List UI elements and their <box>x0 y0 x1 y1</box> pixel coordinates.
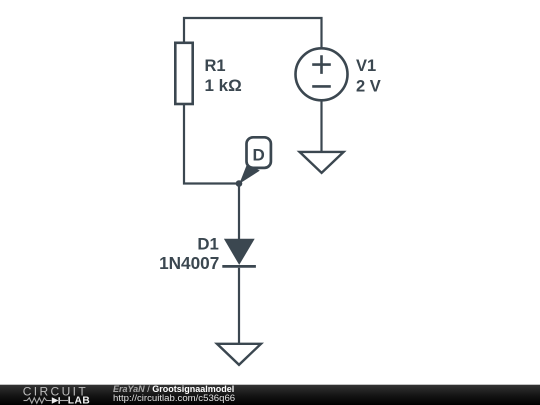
svg-text:D1: D1 <box>197 235 218 254</box>
svg-text:1 kΩ: 1 kΩ <box>205 76 242 95</box>
svg-text:R1: R1 <box>205 57 226 75</box>
svg-text:V1: V1 <box>356 57 376 75</box>
wire top rail from R1 top to V1 top <box>184 18 322 48</box>
wire from V1 bottom to ground <box>320 101 322 152</box>
svg-text:D: D <box>253 145 265 164</box>
svg-text:LAB: LAB <box>68 396 90 405</box>
wire from diode D1 to ground <box>238 268 240 343</box>
svg-text:1N4007: 1N4007 <box>159 253 219 273</box>
junction dot at node D <box>236 180 243 187</box>
CircuitLab logo mini schematic: wire <box>24 400 28 402</box>
svg-text:http://circuitlab.com/c536q66: http://circuitlab.com/c536q66 <box>113 393 235 404</box>
resistor R1 body <box>175 43 192 104</box>
diode D1 cathode bar <box>222 265 256 268</box>
wire from junction down to diode D1 <box>238 184 240 241</box>
voltage source V1 plus sign <box>312 55 331 74</box>
footer bar <box>0 385 540 405</box>
voltage source V1 circle <box>296 48 348 100</box>
CircuitLab logo mini schematic: resistor zigzag <box>27 398 52 403</box>
node D flag tail <box>239 163 259 184</box>
CircuitLab logo mini schematic: diode symbol <box>52 397 59 404</box>
ground symbol under diode <box>217 344 261 365</box>
CircuitLab logo mini schematic: wire to LAB <box>59 400 68 402</box>
node D label box <box>247 137 271 168</box>
diode D1 anode triangle <box>224 239 255 265</box>
wire from R1 bottom to node junction <box>184 104 239 184</box>
svg-text:2 V: 2 V <box>356 78 381 96</box>
voltage source V1 minus sign <box>312 85 331 88</box>
ground symbol under V1 <box>300 152 344 173</box>
